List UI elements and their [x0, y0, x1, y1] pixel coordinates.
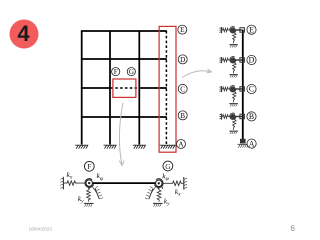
inclined anchor wall at F	[92, 186, 103, 199]
beam level B	[81, 116, 167, 118]
node label A (column model)	[247, 139, 256, 148]
spring ky at F	[84, 186, 94, 206]
column 4 dashed (removed member)	[165, 31, 167, 144]
gray arrow from beam box to beam model	[119, 103, 124, 166]
node label E (frame)	[178, 25, 187, 34]
hinge node G with rotational spring spiral	[154, 179, 163, 189]
node label G (frame)	[127, 68, 135, 77]
column model base support A	[238, 139, 249, 148]
node label A (frame)	[177, 140, 186, 149]
svg-text:18/04/2023: 18/04/2023	[29, 226, 53, 231]
svg-text:6: 6	[291, 224, 296, 233]
spring node cluster at E	[220, 27, 245, 48]
support under column 3	[133, 145, 146, 148]
spring node cluster at C	[220, 86, 245, 107]
svg-text:A: A	[249, 139, 255, 148]
svg-text:A: A	[178, 141, 184, 149]
beam level C right segment	[139, 87, 167, 89]
svg-text:D: D	[249, 56, 255, 65]
red highlight box around removed column	[159, 26, 176, 152]
beam member FG	[93, 182, 156, 184]
column 1	[81, 31, 83, 145]
hinge node F with rotational spring spiral	[85, 179, 94, 188]
node label C (column model)	[247, 84, 256, 93]
svg-text:F: F	[114, 68, 118, 76]
svg-text:D: D	[180, 56, 185, 64]
column model vertical member	[242, 30, 244, 141]
node label D (frame)	[178, 55, 187, 64]
node label E (column model)	[247, 25, 256, 34]
spring ky at G	[153, 186, 163, 206]
svg-text:B: B	[249, 112, 254, 121]
node label D (column model)	[247, 55, 256, 64]
node label B (frame)	[178, 111, 187, 120]
inclined anchor wall at G	[145, 186, 156, 199]
support under column 1	[75, 145, 88, 148]
beam level D	[81, 58, 167, 60]
node label F (beam model)	[84, 161, 94, 171]
beam level C dashed segment (removed member)	[111, 87, 140, 89]
red highlight box around removed beam FG	[113, 79, 136, 97]
spring kx at F	[60, 177, 85, 190]
svg-text:F: F	[87, 162, 91, 171]
svg-text:C: C	[249, 85, 254, 94]
node label C (frame)	[178, 84, 187, 93]
svg-text:B: B	[180, 112, 185, 120]
column 3	[138, 31, 140, 145]
svg-text:G: G	[165, 162, 171, 171]
slide number badge circle 4	[10, 20, 39, 49]
beam level C left segment	[81, 87, 110, 89]
svg-text:4: 4	[17, 21, 30, 46]
beam level E	[81, 30, 167, 32]
spring node cluster at B	[220, 113, 245, 134]
spring kx at G	[162, 177, 187, 190]
support under column 2	[104, 145, 117, 148]
gray arrow from column box to column model	[182, 69, 212, 78]
svg-text:G: G	[129, 68, 134, 76]
svg-text:E: E	[249, 25, 254, 34]
column 2	[109, 31, 111, 145]
svg-text:C: C	[180, 85, 185, 93]
node label B (column model)	[247, 112, 256, 121]
svg-text:E: E	[180, 26, 185, 34]
node label G (beam model)	[163, 161, 173, 171]
support under dashed column 4	[160, 145, 176, 148]
node label F (frame)	[112, 68, 120, 77]
spring node cluster at D	[220, 57, 245, 78]
